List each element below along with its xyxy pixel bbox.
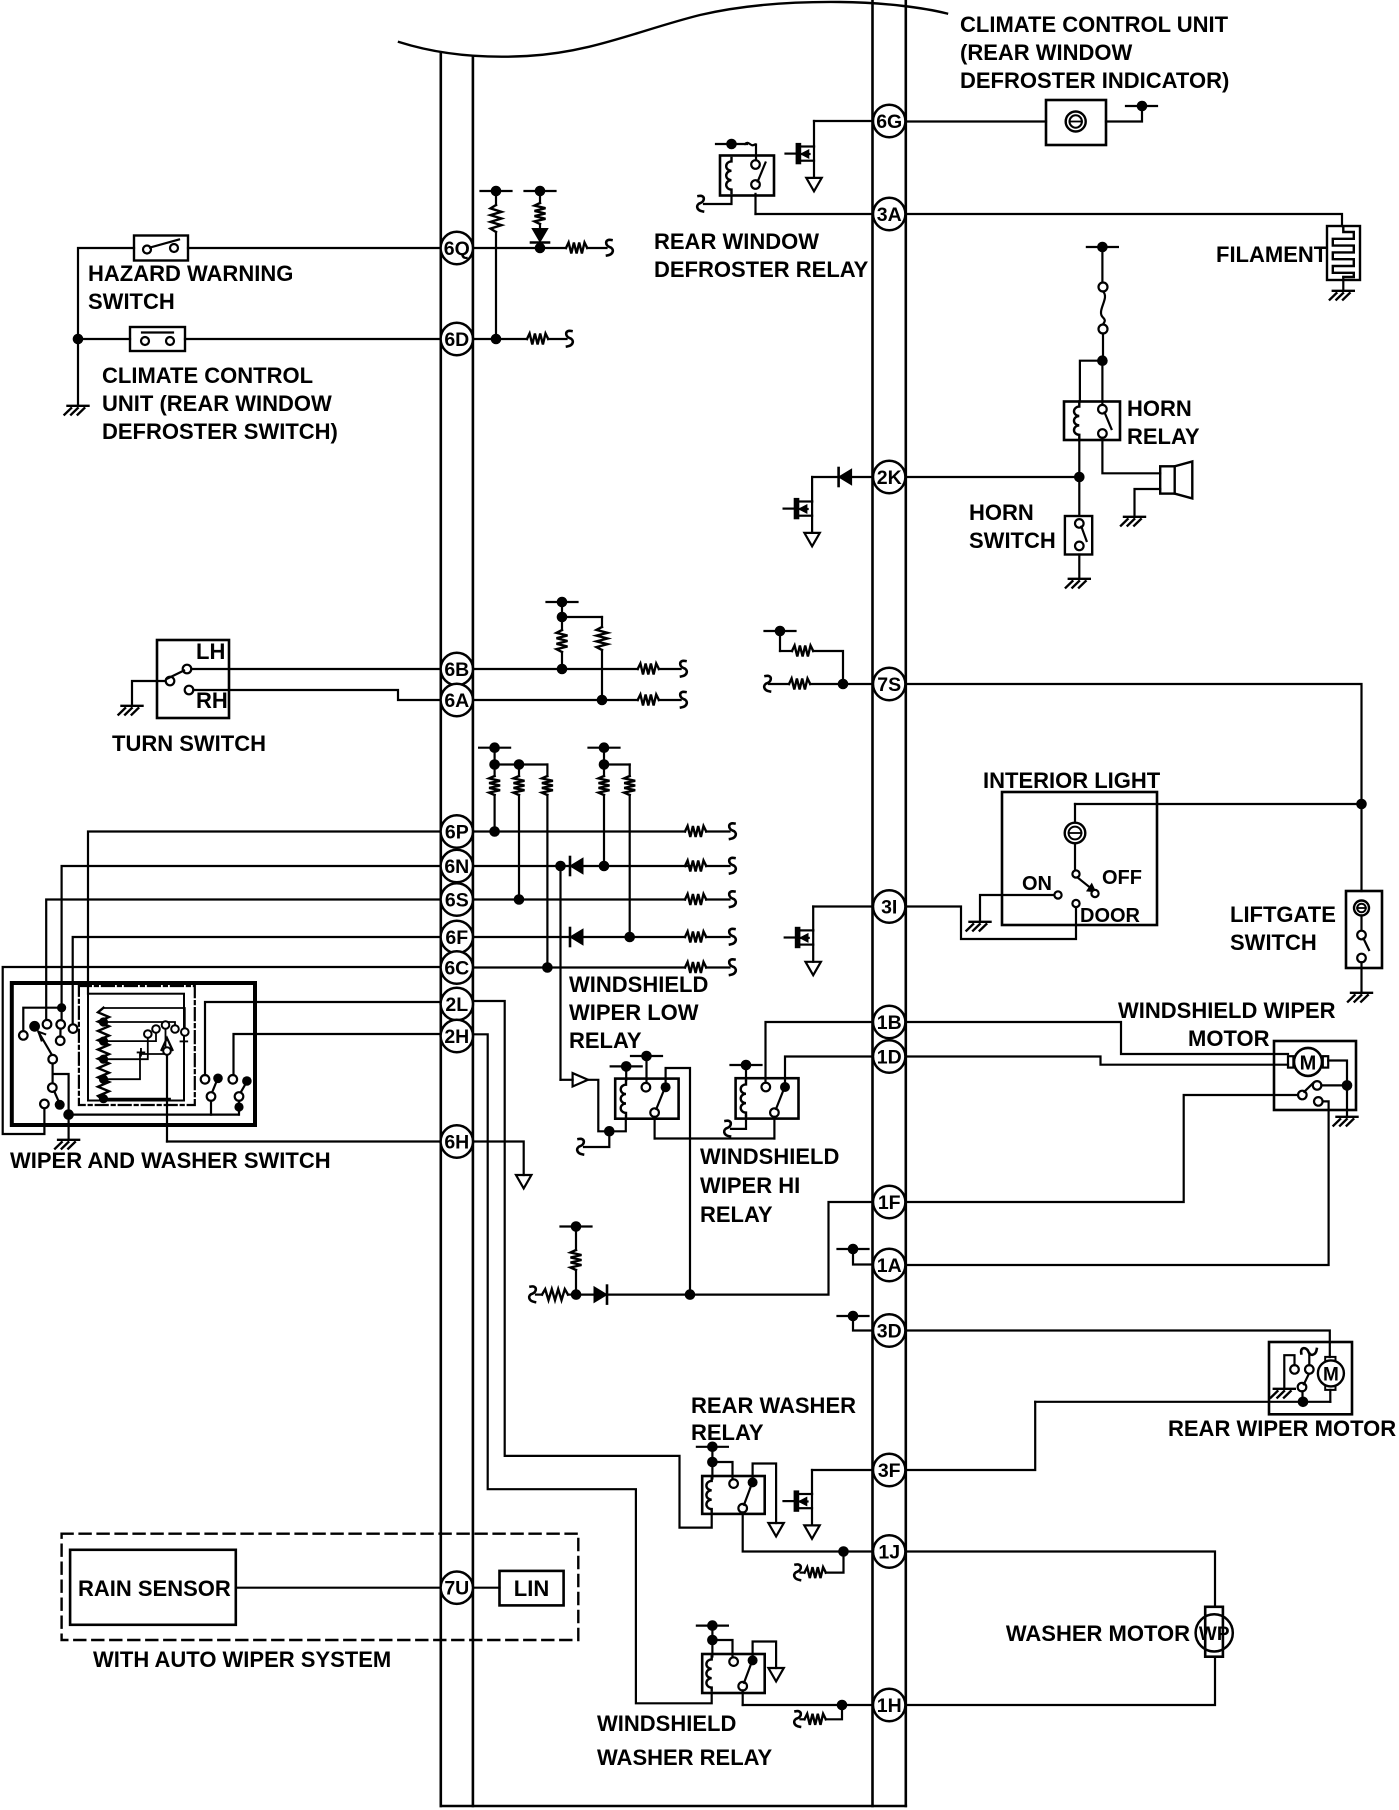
svg-text:6P: 6P	[445, 822, 469, 844]
svg-text:SWITCH: SWITCH	[969, 528, 1056, 553]
svg-text:DEFROSTER SWITCH): DEFROSTER SWITCH)	[102, 419, 338, 444]
svg-text:INTERIOR LIGHT: INTERIOR LIGHT	[983, 768, 1161, 793]
svg-text:OFF: OFF	[1102, 867, 1142, 889]
svg-text:WINDSHIELD: WINDSHIELD	[569, 972, 708, 997]
svg-text:6B: 6B	[444, 659, 469, 681]
svg-text:WINDSHIELD WIPER: WINDSHIELD WIPER	[1118, 998, 1336, 1023]
svg-text:SWITCH: SWITCH	[1230, 930, 1317, 955]
svg-text:LIFTGATE: LIFTGATE	[1230, 902, 1336, 927]
svg-text:DEFROSTER RELAY: DEFROSTER RELAY	[654, 257, 869, 282]
svg-text:LH: LH	[196, 639, 225, 664]
svg-text:TURN SWITCH: TURN SWITCH	[112, 731, 266, 756]
svg-text:M: M	[1323, 1365, 1339, 1386]
svg-text:CLIMATE CONTROL: CLIMATE CONTROL	[102, 363, 313, 388]
svg-text:SWITCH: SWITCH	[88, 289, 175, 314]
svg-text:RELAY: RELAY	[569, 1028, 642, 1053]
svg-text:1D: 1D	[877, 1047, 902, 1069]
svg-text:RH: RH	[196, 688, 228, 713]
svg-text:6C: 6C	[444, 958, 469, 980]
svg-text:RELAY: RELAY	[691, 1420, 764, 1445]
svg-text:3I: 3I	[881, 897, 897, 919]
svg-text:3F: 3F	[878, 1460, 901, 1482]
svg-text:REAR WASHER: REAR WASHER	[691, 1393, 856, 1418]
svg-text:6A: 6A	[444, 690, 469, 712]
svg-text:6S: 6S	[445, 890, 469, 912]
svg-text:DOOR: DOOR	[1080, 905, 1141, 927]
svg-text:MOTOR: MOTOR	[1188, 1026, 1270, 1051]
svg-text:1A: 1A	[877, 1255, 902, 1277]
svg-text:−: −	[179, 1032, 189, 1051]
svg-text:RELAY: RELAY	[700, 1202, 773, 1227]
svg-text:DEFROSTER INDICATOR): DEFROSTER INDICATOR)	[960, 68, 1229, 93]
svg-text:WASHER RELAY: WASHER RELAY	[597, 1745, 773, 1770]
svg-text:+: +	[136, 1043, 146, 1062]
svg-text:M: M	[1300, 1053, 1317, 1075]
svg-text:6F: 6F	[445, 927, 468, 949]
svg-text:WINDSHIELD: WINDSHIELD	[700, 1144, 839, 1169]
svg-text:2H: 2H	[444, 1026, 469, 1048]
svg-text:RELAY: RELAY	[1127, 424, 1200, 449]
svg-text:HORN: HORN	[1127, 396, 1192, 421]
svg-text:WIPER LOW: WIPER LOW	[569, 1000, 699, 1025]
svg-text:7S: 7S	[877, 674, 901, 696]
svg-text:LIN: LIN	[514, 1576, 549, 1601]
svg-text:ON: ON	[1022, 873, 1052, 895]
svg-text:HAZARD WARNING: HAZARD WARNING	[88, 261, 293, 286]
svg-text:3D: 3D	[877, 1321, 902, 1343]
svg-text:WP: WP	[1199, 1624, 1230, 1645]
svg-text:2K: 2K	[877, 467, 902, 489]
svg-text:CLIMATE CONTROL UNIT: CLIMATE CONTROL UNIT	[960, 12, 1229, 37]
svg-text:6N: 6N	[444, 856, 469, 878]
svg-text:1J: 1J	[878, 1542, 900, 1564]
svg-text:WASHER MOTOR: WASHER MOTOR	[1006, 1621, 1190, 1646]
svg-text:WIPER HI: WIPER HI	[700, 1173, 800, 1198]
svg-text:7U: 7U	[444, 1578, 469, 1600]
svg-text:WITH AUTO WIPER SYSTEM: WITH AUTO WIPER SYSTEM	[93, 1647, 391, 1672]
svg-text:WIPER AND WASHER SWITCH: WIPER AND WASHER SWITCH	[10, 1148, 331, 1173]
svg-text:2L: 2L	[445, 994, 468, 1016]
svg-text:1H: 1H	[877, 1695, 902, 1717]
svg-text:UNIT (REAR WINDOW: UNIT (REAR WINDOW	[102, 391, 332, 416]
svg-text:6G: 6G	[876, 111, 902, 133]
svg-text:REAR WIPER MOTOR: REAR WIPER MOTOR	[1168, 1416, 1396, 1441]
svg-text:6D: 6D	[444, 329, 469, 351]
svg-text:1F: 1F	[878, 1192, 901, 1214]
svg-text:FILAMENT: FILAMENT	[1216, 242, 1328, 267]
svg-text:(REAR WINDOW: (REAR WINDOW	[960, 40, 1133, 65]
svg-text:6H: 6H	[444, 1132, 469, 1154]
svg-text:6Q: 6Q	[444, 238, 470, 260]
svg-text:1B: 1B	[877, 1012, 902, 1034]
svg-text:WINDSHIELD: WINDSHIELD	[597, 1711, 736, 1736]
svg-text:3A: 3A	[877, 204, 902, 226]
svg-text:REAR WINDOW: REAR WINDOW	[654, 229, 819, 254]
svg-text:HORN: HORN	[969, 500, 1034, 525]
svg-text:RAIN SENSOR: RAIN SENSOR	[78, 1576, 231, 1601]
